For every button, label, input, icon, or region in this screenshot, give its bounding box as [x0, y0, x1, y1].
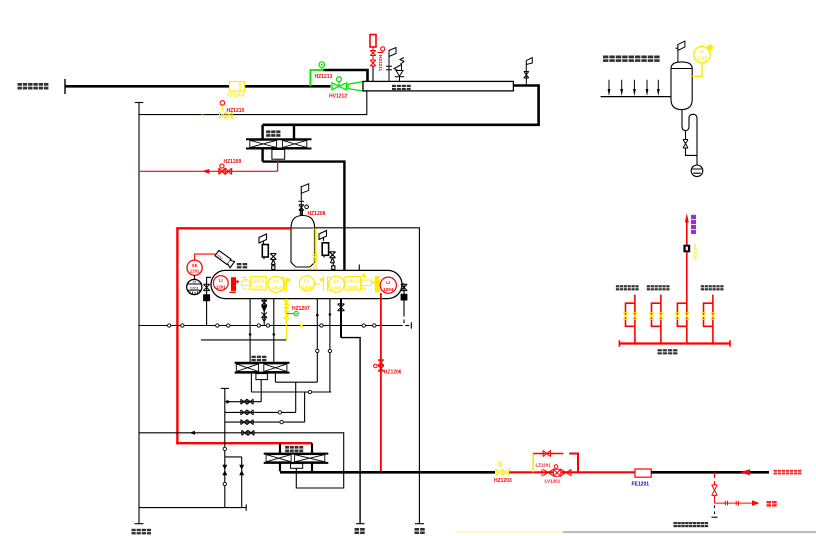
svg-text:LV1201: LV1201 — [545, 479, 561, 484]
svg-text:FE1203: FE1203 — [227, 93, 245, 99]
svg-text:LT: LT — [273, 279, 278, 284]
valve drum left drain — [203, 277, 211, 325]
controller LRCA1203 — [345, 277, 361, 291]
svg-text:LZ1201: LZ1201 — [536, 463, 552, 468]
steam manifold red — [619, 340, 730, 347]
wire shell bottom return — [139, 91, 367, 115]
wire blowoff line y115 with valves HZ1210 — [201, 101, 245, 119]
svg-text:LI: LI — [386, 280, 390, 285]
level gauge right — [319, 231, 336, 271]
svg-text:1203: 1203 — [331, 286, 342, 291]
valve sample tap red — [712, 472, 752, 505]
svg-text:1204: 1204 — [383, 287, 394, 292]
svg-text:1215: 1215 — [697, 56, 708, 61]
wire thick steam out right — [263, 86, 539, 125]
svg-text:XE: XE — [192, 263, 198, 268]
svg-text:1205: 1205 — [302, 285, 313, 290]
label right column bottom — [415, 528, 425, 534]
svg-text:HZ1206: HZ1206 — [384, 370, 402, 376]
svg-text:FE1204: FE1204 — [693, 244, 698, 260]
level marks yellow left — [242, 278, 250, 291]
transmitter LT1202 — [280, 277, 285, 291]
valve stack drum drain b — [261, 299, 267, 326]
svg-text:1202: 1202 — [271, 286, 282, 291]
node circles on L1 — [168, 324, 376, 327]
economizer — [235, 363, 290, 380]
svg-text:HZ1211: HZ1211 — [378, 55, 383, 72]
air heater lower — [264, 443, 329, 471]
indicator XI1201 — [187, 275, 202, 294]
gauge bar red — [230, 277, 240, 293]
blowdown drum vessel — [671, 62, 692, 110]
camera ITV — [215, 250, 235, 267]
label 到辐射段炉膛 — [18, 83, 49, 90]
wire red blowdown HZ1209 — [139, 159, 278, 174]
orifice FE1201 — [635, 469, 651, 477]
arrow steam out up — [685, 213, 689, 222]
dosing vessel — [291, 216, 315, 268]
svg-text:HZ1209: HZ1209 — [224, 159, 242, 165]
svg-text:FE1201: FE1201 — [632, 482, 650, 488]
wire drum drain d — [316, 299, 318, 383]
svg-text:LRCA: LRCA — [346, 278, 359, 283]
wire econ outlets — [251, 374, 331, 423]
svg-text:HZ1213: HZ1213 — [315, 74, 333, 80]
safety valve PSV — [394, 58, 404, 82]
svg-text:LI: LI — [219, 278, 223, 283]
wire feedwater red — [509, 471, 635, 473]
label 汽包 — [237, 263, 247, 268]
wire drum drain a — [249, 299, 251, 362]
controller LRCA1202 — [251, 277, 266, 290]
valve drum right drain — [401, 284, 407, 323]
border strip bottom — [455, 531, 563, 533]
wire valve branch 2 — [225, 410, 296, 415]
svg-text:1201: 1201 — [190, 285, 200, 290]
wire red HZ1206 — [374, 293, 384, 472]
valve filled pair left — [222, 465, 244, 476]
transmitter LT1203 — [328, 277, 331, 290]
wire sample drain dashed — [712, 506, 718, 518]
label purple vertical — [691, 215, 696, 234]
svg-text:HZ1208: HZ1208 — [308, 211, 326, 217]
trap loop seal — [682, 110, 703, 177]
heat exchanger upper — [246, 125, 344, 270]
control valve HV1212 — [332, 77, 363, 91]
instrument LT1215 yellow — [692, 45, 713, 77]
vent flag blowdown — [675, 41, 685, 62]
riser 1 with bypass — [626, 295, 635, 344]
label on shell — [392, 85, 411, 90]
blowdown collection header — [601, 96, 671, 98]
steam drum shell — [211, 270, 402, 298]
vent flag on shell — [386, 48, 396, 82]
blowdown inlet arrows — [608, 80, 660, 96]
wire feedwater main black left — [280, 471, 495, 474]
indicator LI1204 — [380, 277, 396, 293]
vessel saturated steam shell — [363, 81, 513, 91]
label 自锅炉给水泵来 red — [774, 470, 802, 475]
label 省煤器 — [252, 356, 267, 362]
riser 3 main with bypass — [677, 223, 686, 344]
orifice FE1203 — [227, 82, 245, 99]
svg-text:HZ1210: HZ1210 — [227, 108, 245, 114]
labels risers — [616, 285, 724, 290]
stub nozzle on drum top — [358, 265, 360, 271]
valve stack HZ1211 — [370, 35, 385, 67]
svg-text:1201: 1201 — [190, 269, 200, 274]
svg-text:HZ1207: HZ1207 — [292, 306, 310, 312]
svg-text:LA: LA — [304, 278, 311, 283]
wire valve branch 3 — [225, 420, 305, 425]
gauge bar yellow — [371, 280, 375, 284]
svg-text:LT: LT — [334, 279, 339, 284]
label sample red — [767, 501, 777, 507]
wire green bypass HZ1213 — [310, 62, 324, 87]
wire thick feed to shell — [324, 70, 368, 81]
svg-text:LRCA: LRCA — [252, 278, 265, 283]
level marks yellow right — [361, 275, 371, 291]
label 除氧给水 bottom left — [132, 529, 152, 535]
wire branch to right column — [315, 228, 420, 524]
wire blowdown drains column — [139, 388, 246, 510]
svg-text:1202: 1202 — [253, 285, 264, 290]
label 暖风器 — [285, 446, 303, 452]
label manifold — [658, 349, 678, 354]
control valve LV1201 — [542, 469, 571, 476]
dosing vessel yellow outlet — [294, 228, 317, 270]
wire valve branch 4 long — [139, 430, 344, 488]
svg-text:HZ1203: HZ1203 — [494, 478, 512, 484]
main steam line to furnace — [65, 79, 331, 94]
wire LZ1201 yellow riser — [532, 454, 534, 473]
vent flag on dosing vessel HZ1208 — [299, 184, 309, 216]
orifice FE1204 — [683, 245, 690, 253]
wire thick drum downcomer — [338, 299, 365, 524]
wire drum drain c — [273, 299, 275, 362]
riser 2 with bypass — [652, 295, 661, 344]
wire L2 — [201, 339, 286, 341]
vent valve on line — [524, 58, 533, 86]
riser 4 with bypass — [704, 295, 713, 344]
wire bypass red — [533, 450, 578, 472]
arrow feed flow — [740, 469, 751, 475]
label 连续定期排污及底水 — [603, 56, 660, 62]
wire drum drain e — [329, 299, 331, 392]
wire left header column — [135, 103, 144, 524]
svg-text:1203: 1203 — [348, 285, 359, 290]
wire red loop left/bottom — [176, 227, 178, 444]
yellow node on L1 — [300, 324, 303, 327]
wire feedwater black right — [651, 471, 769, 474]
alarm LA1205 — [299, 276, 314, 291]
svg-text:HV1212: HV1212 — [329, 94, 347, 100]
label column bottom 2 — [355, 528, 365, 534]
valve set HZ1207 yellow — [284, 299, 289, 340]
valve HZ1203 yellow — [496, 462, 509, 476]
camera XE1201 — [187, 254, 216, 275]
label 锅炉给水分析取样点 — [674, 522, 709, 527]
indicator LI1201 — [213, 276, 228, 291]
svg-text:XI: XI — [192, 279, 196, 284]
wire valve branch 1 — [225, 399, 261, 404]
wire red loop top — [177, 227, 291, 229]
wire lower header L1 — [139, 322, 411, 328]
label 换热器 — [266, 130, 280, 136]
level gauge left — [259, 234, 276, 270]
svg-text:1201: 1201 — [216, 285, 226, 290]
